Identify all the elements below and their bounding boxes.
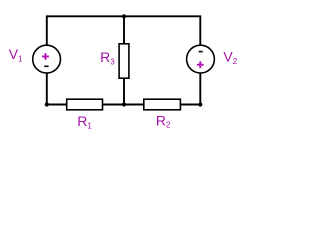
- wire middle vertical lower: [123, 78, 125, 104]
- svg-text:R1: R1: [77, 113, 92, 130]
- resistor R3: [119, 44, 129, 78]
- junction top middle node: [122, 14, 126, 18]
- wire left vertical upper: [46, 15, 48, 45]
- wire middle vertical upper: [123, 16, 125, 44]
- resistor R1: [67, 99, 103, 110]
- junction bottom right node: [198, 102, 202, 106]
- wire bottom horizontal: [47, 104, 201, 106]
- V1 minus polarity mark: [44, 65, 48, 67]
- junction bottom middle node: [122, 102, 126, 106]
- svg-text:V1: V1: [9, 46, 23, 63]
- svg-text:R3: R3: [100, 49, 115, 66]
- wire right vertical upper: [199, 15, 201, 45]
- junction bottom left node: [45, 102, 49, 106]
- svg-text:V2: V2: [223, 48, 237, 65]
- voltage source V2: [187, 45, 215, 73]
- resistor R2: [144, 99, 181, 110]
- wire top horizontal: [47, 15, 201, 17]
- V1 plus polarity mark: [42, 53, 49, 60]
- wire left vertical lower: [46, 73, 48, 105]
- voltage source V1: [33, 45, 61, 73]
- wire right vertical lower: [199, 73, 201, 105]
- V2 plus polarity mark: [197, 61, 204, 68]
- V2 minus polarity mark: [199, 51, 203, 53]
- svg-text:R2: R2: [156, 112, 171, 129]
